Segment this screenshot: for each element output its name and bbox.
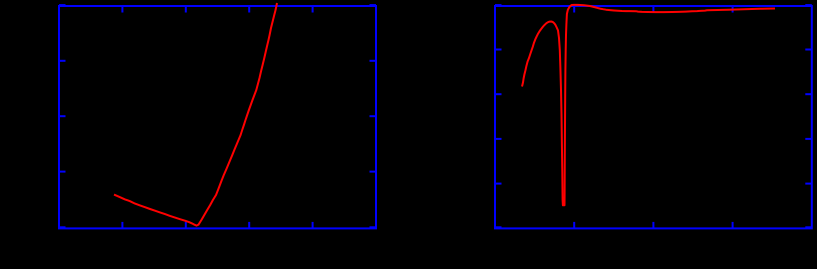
left plot x ticks top <box>122 6 312 13</box>
right plot axes box <box>495 6 812 228</box>
left plot y ticks right <box>370 61 377 172</box>
right plot corner tick nubs <box>495 5 812 227</box>
left plot axes box <box>59 6 376 228</box>
right plot x ticks bottom <box>574 222 732 229</box>
left plot y ticks left <box>59 61 66 172</box>
left plot x ticks bottom <box>122 222 312 229</box>
right plot red curve <box>522 5 775 205</box>
right plot x ticks top <box>574 6 732 13</box>
right plot y ticks right <box>805 50 812 184</box>
left plot red curve <box>114 3 277 226</box>
left plot corner tick nubs <box>59 5 376 227</box>
right plot y ticks left <box>495 50 502 184</box>
